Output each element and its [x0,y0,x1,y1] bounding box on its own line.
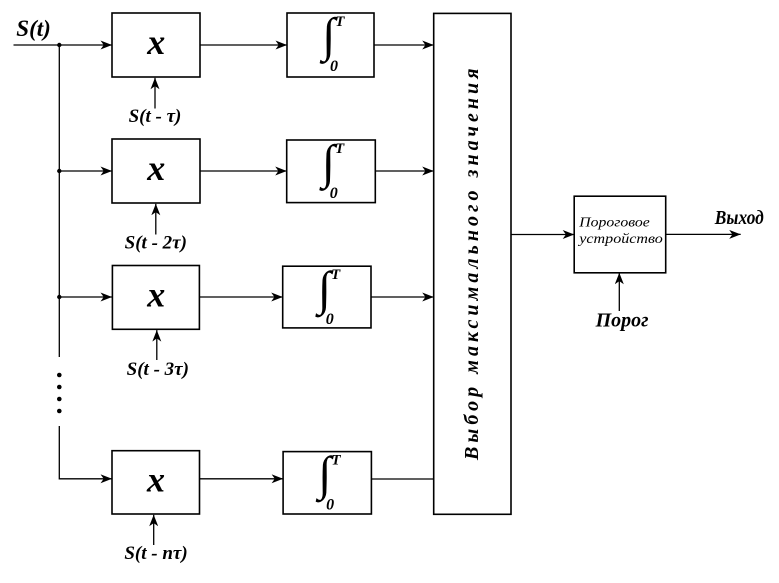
integral symbol block 3 [314,262,341,328]
wire: delayed signal arrow into multiplier 2 bottom [155,204,157,235]
svg-text:x: x [146,459,165,499]
svg-text:0: 0 [326,311,334,328]
wire: integrator 1 to selector [374,44,434,46]
svg-text:x: x [146,148,165,188]
multiplier block 4 [112,451,200,514]
wire: Porog arrow into threshold device bottom [618,273,620,311]
wire: integrator 3 to selector [371,296,434,298]
selector block: maximum value selection [434,13,511,514]
wire: delayed signal arrow into multiplier 4 bottom [153,515,155,545]
svg-text:x: x [146,22,165,62]
integral symbol block 4 [315,448,342,514]
ellipsis dots on bus [57,373,62,414]
svg-text:0: 0 [330,58,338,75]
svg-text:T: T [335,14,345,30]
wire: bus lower segment with bend into multiplier 4 [59,426,112,479]
svg-text:S(t - 2τ): S(t - 2τ) [125,232,187,253]
wire: multiplier 1 to integrator 1 [200,44,287,46]
svg-text:0: 0 [330,185,338,202]
svg-text:x: x [146,274,165,314]
integrator block 1 [287,13,374,77]
wire: threshold device output [666,233,741,235]
svg-text:Выбор максимального значения: Выбор максимального значения [461,64,483,461]
integrator block 3 [283,266,371,328]
svg-text:0: 0 [326,497,334,514]
svg-text:S(t - τ): S(t - τ) [129,106,182,127]
svg-text:Выход: Выход [714,207,764,229]
wire: multiplier 2 to integrator 2 [200,170,287,172]
wire: multiplier 4 to integrator 4 [200,478,284,480]
junction dot node row 2 [57,169,61,173]
integrator block 4 [283,452,371,514]
multiplier block 1 [112,13,200,77]
wire: tap to multiplier 3 [59,296,112,298]
wire: tap to multiplier 2 [59,170,112,172]
wire: integrator 2 to selector [375,170,433,172]
integrator block 2 [287,140,376,203]
svg-text:T: T [335,141,345,157]
wire: delayed signal arrow into multiplier 3 bottom [156,330,158,360]
svg-text:Пороговое: Пороговое [578,216,650,231]
svg-text:S(t): S(t) [16,16,51,41]
svg-text:устройство: устройство [577,232,663,247]
wire: input S(t) into multiplier 1 [14,44,113,46]
label: Porogovoe ustroystvo [577,216,663,248]
wire: selector to threshold device [511,234,574,236]
wire: integrator 4 to selector (no arrow) [371,478,433,480]
svg-text:S(t - nτ): S(t - nτ) [124,543,187,564]
wire: delayed signal arrow into multiplier 1 bottom [154,78,156,109]
integral symbol block 2 [318,136,345,202]
svg-text:S(t - 3τ): S(t - 3τ) [127,359,189,380]
integral symbol block 1 [319,9,346,75]
multiplier block 3 [112,266,199,330]
threshold device block [574,196,666,273]
multiplier block 2 [112,139,200,203]
junction dot node row 1 [57,43,61,47]
wire: multiplier 3 to integrator 3 [199,296,282,298]
svg-text:T: T [331,453,341,469]
svg-text:T: T [331,267,341,283]
svg-text:Порог: Порог [595,309,649,331]
wire: vertical bus from node row1 down [58,45,60,357]
junction dot node row 3 [57,295,61,299]
